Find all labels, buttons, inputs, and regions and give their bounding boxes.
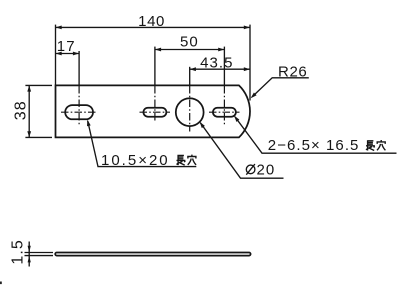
centerline horizontal slot3	[209, 111, 240, 113]
centerline vertical circle	[189, 86, 191, 132]
leader R26	[252, 78, 309, 97]
dimension 38 line	[28, 85, 30, 137]
svg-text:50: 50	[180, 33, 199, 50]
svg-text:140: 140	[138, 13, 165, 30]
svg-text:38: 38	[12, 100, 29, 120]
centerline vertical slot1	[78, 86, 80, 126]
dimension 17 line	[56, 53, 80, 55]
label 2-6.5x16.5 kanji naga-ana	[366, 140, 385, 151]
plate outline (top view, right end R26)	[56, 85, 250, 137]
svg-text:1.5: 1.5	[10, 239, 27, 265]
dimension 38 extension bottom	[25, 136, 52, 138]
extension line slot2 center	[154, 47, 156, 86]
svg-text:20: 20	[257, 162, 276, 179]
speck bottom-left	[0, 282, 2, 285]
leader slot 2-6.5x16.5	[235, 117, 397, 153]
dimension 43.5 line	[190, 68, 250, 70]
extension line slot1 center	[78, 51, 80, 85]
centerline horizontal slot1	[61, 111, 98, 113]
extension line circle center	[189, 67, 191, 86]
slot hole 10.5x20 (left)	[65, 105, 93, 119]
svg-text:R26: R26	[278, 63, 307, 80]
slot hole 6.5x16.5 (right)	[213, 108, 236, 117]
label dia20 symbol	[246, 164, 255, 175]
leader slot 10.5x20	[88, 121, 197, 167]
dimension 1.5 line	[28, 242, 30, 267]
centerline horizontal slot2	[140, 111, 171, 113]
svg-text:17: 17	[57, 38, 76, 55]
svg-text:10.5×20: 10.5×20	[101, 152, 170, 169]
hole dia20	[176, 98, 204, 126]
extension line right edge	[249, 25, 251, 101]
label 10.5x20 kanji naga-ana	[177, 155, 197, 166]
centerline vertical slot3	[223, 86, 225, 127]
dimension 50 line	[155, 49, 225, 51]
svg-text:2−6.5× 16.5: 2−6.5× 16.5	[268, 137, 360, 154]
leader dia20	[200, 123, 283, 179]
extension line slot3 center	[223, 47, 225, 86]
dimension 140 line	[56, 26, 251, 28]
dimension 1.5 extension bottom	[25, 255, 54, 257]
side view plate t=1.5	[55, 253, 250, 256]
centerline vertical slot2	[154, 86, 156, 123]
dimension 38 extension top	[25, 84, 52, 86]
slot hole 6.5x16.5 (middle)	[143, 108, 166, 117]
extension line left edge	[55, 25, 57, 86]
svg-text:43.5: 43.5	[200, 54, 233, 71]
dimension 1.5 extension top	[25, 252, 54, 254]
